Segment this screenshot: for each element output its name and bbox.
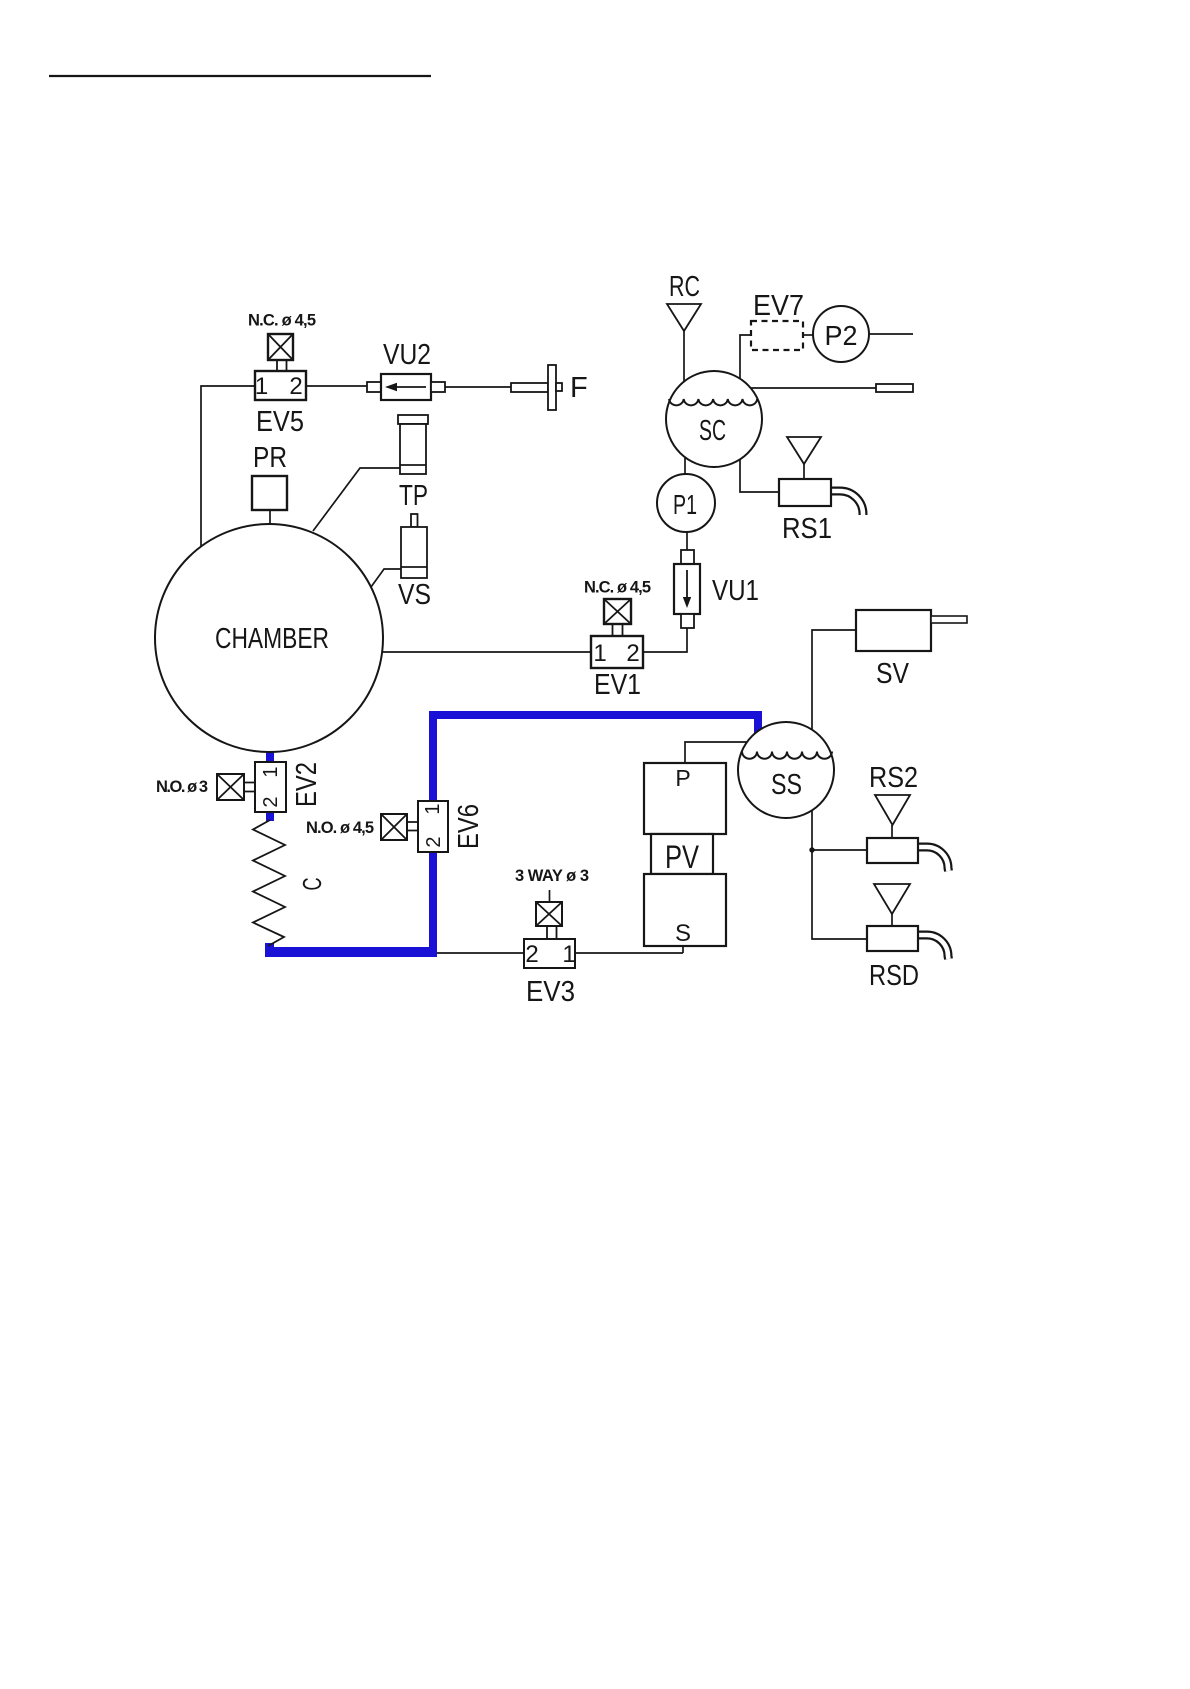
separator SS circle	[738, 722, 834, 818]
svg-text:2: 2	[626, 640, 639, 667]
svg-text:F: F	[570, 372, 588, 404]
wire blue coil foot	[265, 943, 274, 957]
probe right of SC	[876, 384, 913, 392]
probe TP	[398, 415, 428, 424]
EV6 stem	[406, 822, 419, 831]
svg-text:PR: PR	[253, 442, 287, 474]
svg-text:2: 2	[423, 836, 445, 847]
wire RS2 funnel stem	[891, 825, 893, 838]
svg-text:TP: TP	[399, 480, 428, 512]
wire RC to SC	[683, 331, 685, 390]
wire VS to chamber	[371, 569, 401, 587]
separator SC circle	[666, 371, 762, 467]
muffler RS1 spout	[831, 491, 863, 515]
svg-text:VU1: VU1	[712, 575, 759, 607]
water level in SS	[742, 752, 832, 759]
solenoid EV3 pilot (X box)	[536, 902, 562, 926]
svg-text:1: 1	[562, 941, 575, 968]
funnel RC	[667, 304, 701, 331]
svg-text:SS: SS	[771, 769, 802, 801]
wire P box to SS	[685, 742, 755, 763]
svg-text:RC: RC	[669, 271, 700, 303]
water level in SC	[669, 399, 757, 405]
svg-text:RSD: RSD	[869, 960, 919, 992]
svg-text:N.O. ø 3: N.O. ø 3	[156, 778, 208, 796]
svg-text:P2: P2	[825, 320, 858, 351]
muffler RS1 body	[779, 479, 831, 506]
solenoid EV2 pilot (X box)	[217, 774, 244, 800]
wire P2 right	[869, 333, 913, 335]
EV2 stem	[243, 783, 256, 792]
svg-text:SC: SC	[699, 415, 726, 447]
svg-text:EV6: EV6	[453, 804, 485, 849]
wire blue drop to SS	[754, 711, 762, 733]
wire EV3 to S box	[575, 952, 683, 954]
wire blue stub EV2-coil	[266, 812, 274, 821]
valve EV6 body	[418, 801, 448, 852]
muffler RS2 spout	[918, 847, 949, 871]
svg-text:2: 2	[525, 941, 538, 968]
wire EV1 port2 to VU1	[643, 628, 687, 652]
svg-text:RS2: RS2	[869, 762, 918, 794]
svg-text:EV2: EV2	[291, 762, 323, 807]
svg-text:VU2: VU2	[383, 339, 431, 371]
check valve VU1	[681, 550, 694, 564]
wire blue top run	[429, 711, 762, 719]
svg-text:VS: VS	[398, 579, 431, 611]
svg-text:CHAMBER: CHAMBER	[215, 623, 329, 655]
svg-text:EV5: EV5	[256, 406, 304, 438]
svg-text:C: C	[297, 878, 327, 891]
pump unit P box	[644, 763, 726, 834]
svg-text:EV7: EV7	[753, 290, 804, 322]
svg-text:SV: SV	[876, 658, 910, 690]
gauge P1 circle	[657, 474, 715, 532]
wire EV3 third way tick	[549, 890, 551, 902]
wire P1 to SC	[684, 450, 686, 480]
funnel RSD	[874, 884, 910, 914]
svg-text:N.C. ø 4,5: N.C. ø 4,5	[248, 312, 316, 330]
pump unit S box	[644, 874, 726, 946]
sensor VS	[411, 514, 418, 527]
wire SV to RSD vertical run	[812, 630, 867, 939]
valve EV7 dashed box	[751, 321, 803, 350]
node junction dot	[809, 847, 814, 852]
blue pipe circuit	[265, 711, 762, 957]
valve EV1 body	[591, 636, 643, 668]
fitting F	[511, 383, 548, 392]
wire junction to RS2	[812, 849, 867, 851]
svg-text:1: 1	[422, 803, 444, 814]
wire blue stub chamber-EV2	[266, 751, 274, 762]
valve EV3 body	[524, 939, 575, 968]
funnel RS1	[787, 437, 821, 464]
wire S box drop	[682, 946, 684, 953]
wire VU1 to P1	[686, 525, 688, 550]
pump unit PV box	[651, 834, 713, 874]
valve EV2 body	[255, 762, 286, 812]
gauge P2 circle	[813, 306, 869, 362]
svg-text:3 WAY ø 3: 3 WAY ø 3	[515, 867, 589, 885]
svg-text:1: 1	[593, 640, 606, 667]
wire EV5 port2 to VU2	[306, 385, 367, 387]
wire SC probe	[748, 387, 876, 389]
EV3 stem	[547, 925, 557, 940]
svg-text:N.O. ø 4,5: N.O. ø 4,5	[306, 819, 374, 837]
wire RSD funnel stem	[891, 914, 893, 926]
svg-text:EV1: EV1	[594, 669, 641, 701]
arrow in VU1	[686, 570, 688, 600]
svg-text:2: 2	[289, 373, 302, 400]
header rule	[49, 75, 431, 77]
muffler RS2 body	[867, 838, 918, 863]
wire EV7 to SC	[740, 335, 751, 385]
coil C zigzag	[253, 820, 285, 946]
valve EV5 body	[255, 371, 306, 400]
wire EV5 port1 to chamber (left drop)	[201, 386, 255, 546]
svg-text:1: 1	[260, 766, 282, 777]
vessel CHAMBER circle	[155, 524, 383, 752]
EV5 stem	[277, 359, 287, 372]
check valve VU2	[367, 382, 381, 392]
muffler RSD spout	[918, 935, 949, 959]
svg-text:2: 2	[260, 796, 282, 807]
solenoid EV5 pilot (X box)	[268, 334, 293, 360]
svg-text:RS1: RS1	[782, 513, 832, 545]
svg-text:PV: PV	[665, 839, 700, 875]
arrow in VU2	[396, 386, 426, 388]
wire TP to chamber	[313, 468, 400, 531]
wire SC to RS1	[740, 455, 779, 492]
svg-text:S: S	[675, 920, 691, 947]
svg-text:EV3: EV3	[526, 976, 575, 1008]
svg-text:P: P	[675, 765, 690, 791]
wire blue corner to EV3	[437, 952, 524, 954]
wire EV7 to P2	[803, 334, 815, 336]
wire chamber to EV1	[378, 651, 591, 653]
transducer PR box	[252, 476, 287, 510]
muffler RSD body	[867, 926, 918, 951]
wire blue vertical run through EV6	[429, 711, 437, 957]
EV1 stem	[613, 623, 623, 637]
wire blue bottom run	[265, 947, 437, 957]
wire RS1 funnel stem	[803, 464, 805, 479]
safety valve SV	[856, 610, 931, 651]
svg-text:1: 1	[255, 373, 268, 400]
svg-text:P1: P1	[673, 489, 697, 520]
solenoid EV6 pilot (X box)	[381, 814, 407, 840]
funnel RS2	[875, 795, 910, 825]
wire PR stem	[269, 510, 271, 526]
solenoid EV1 pilot (X box)	[604, 599, 631, 624]
svg-text:N.C. ø 4,5: N.C. ø 4,5	[584, 579, 651, 597]
wire VU2 to F	[445, 386, 511, 388]
